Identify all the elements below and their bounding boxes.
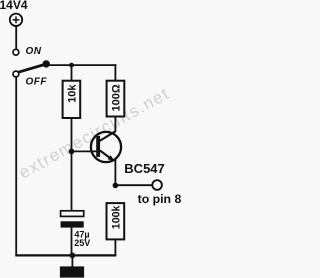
transistor Q1 base bar: [96, 136, 100, 157]
wire left side down: [15, 77, 17, 256]
svg-text:BC547: BC547: [124, 161, 164, 176]
resistor 100R: [107, 81, 125, 117]
transistor Q1 BC547 circle: [91, 132, 121, 162]
svg-text:10k: 10k: [67, 84, 79, 103]
ground stub: [71, 255, 73, 266]
terminal to pin 8: [152, 180, 162, 190]
switch S1 lever: [18, 64, 46, 72]
switch S1 ON terminal: [13, 49, 19, 55]
svg-text:100k: 100k: [111, 206, 123, 230]
ground bar: [60, 266, 84, 277]
node junction J4 ground node: [70, 253, 76, 259]
capacitor C1 top plate: [61, 211, 84, 217]
wire top horizontal: [46, 64, 116, 66]
wire emitter down: [114, 159, 116, 185]
watermark extremecircuits.net: [16, 84, 173, 183]
node junction J2 base node: [69, 149, 75, 155]
wire terminal to ON: [15, 26, 17, 49]
wire base: [72, 150, 99, 152]
transistor Q1 emitter lead with arrow: [100, 151, 115, 162]
node junction J3 emitter node: [113, 183, 119, 189]
wire to pin terminal: [115, 184, 151, 186]
capacitor C1 bottom plate: [61, 221, 84, 227]
wire bottom rail: [15, 254, 116, 256]
node dot lever pivot: [43, 60, 50, 67]
transistor Q1 collector lead: [100, 131, 116, 141]
svg-text:OFF: OFF: [26, 76, 48, 87]
wire J1 to 10k top: [71, 65, 73, 81]
wire branch vertical to 100R: [114, 64, 116, 81]
wire capacitor to rail: [71, 228, 73, 256]
svg-text:100Ω: 100Ω: [111, 84, 123, 111]
switch S1 OFF terminal: [13, 71, 19, 77]
wire 100R bottom to collector: [114, 117, 116, 132]
svg-text:to pin 8: to pin 8: [138, 192, 181, 206]
resistor 10k: [63, 81, 81, 118]
wire base node down to capacitor: [71, 151, 73, 211]
node junction J1: [69, 63, 74, 68]
wire 100k bottom to rail: [114, 239, 116, 255]
resistor 100k: [107, 203, 125, 239]
battery terminal +: [10, 14, 22, 26]
svg-text:25V: 25V: [74, 238, 90, 248]
svg-text:ON: ON: [26, 46, 42, 57]
wire 10k bottom to base node: [71, 118, 73, 151]
svg-text:14V4: 14V4: [0, 0, 28, 12]
